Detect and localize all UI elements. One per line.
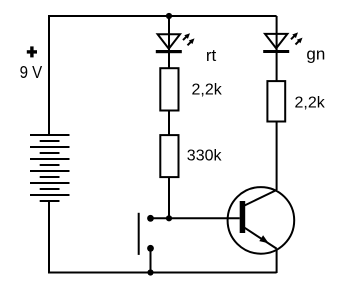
- wire: battery minus down and bottom rail: [49, 201, 277, 273]
- node: bottom rail junction: [147, 269, 153, 275]
- transistor Q1 emitter arrowhead: [259, 235, 268, 243]
- wire: top rail from battery + to LED branches: [49, 16, 277, 135]
- resistor R3 2,2k: [267, 81, 285, 121]
- wire: R2 down to base node: [168, 177, 170, 218]
- switch S1 top contact: [147, 215, 154, 222]
- LED D2 triangle (anode): [265, 34, 287, 49]
- LED D1 triangle (anode): [158, 34, 180, 49]
- svg-text:2,2k: 2,2k: [295, 95, 326, 112]
- LED D2 cathode bar: [263, 50, 289, 53]
- resistor R1 2,2k: [160, 68, 178, 110]
- wire: base wire from switch contact to transistor base: [151, 217, 240, 219]
- wire: LED D2 branch vertical through diode: [276, 16, 278, 81]
- transistor Q1 base bar: [240, 201, 246, 233]
- battery B1 plates: [30, 135, 70, 201]
- switch S1 bottom contact: [147, 245, 154, 252]
- LED D2 light arrows: [291, 32, 303, 44]
- battery B1 plus label: [27, 46, 37, 57]
- svg-text:2,2k: 2,2k: [192, 82, 223, 99]
- wire: emitter down to bottom rail: [276, 249, 278, 273]
- svg-text:gn: gn: [306, 45, 325, 64]
- node: base junction: [166, 215, 172, 221]
- transistor Q1 emitter lead: [245, 228, 277, 249]
- transistor Q1 circle: [228, 187, 295, 254]
- switch S1 actuator bar: [138, 213, 140, 255]
- wire: R3 down to collector: [276, 122, 278, 191]
- svg-text:rt: rt: [206, 46, 217, 65]
- resistor R2 330k: [160, 135, 178, 177]
- node: top junction of LED D1 branch: [166, 13, 172, 19]
- wire: LED D1 branch vertical through diode: [168, 16, 170, 68]
- wire: R1 to R2: [168, 111, 170, 136]
- LED D1 light arrows: [183, 33, 195, 45]
- svg-text:9 V: 9 V: [20, 62, 43, 82]
- transistor Q1 collector lead: [245, 190, 277, 206]
- svg-text:330k: 330k: [187, 148, 223, 165]
- wire: switch bottom contact to bottom rail: [150, 248, 152, 272]
- LED D1 cathode bar: [156, 50, 182, 53]
